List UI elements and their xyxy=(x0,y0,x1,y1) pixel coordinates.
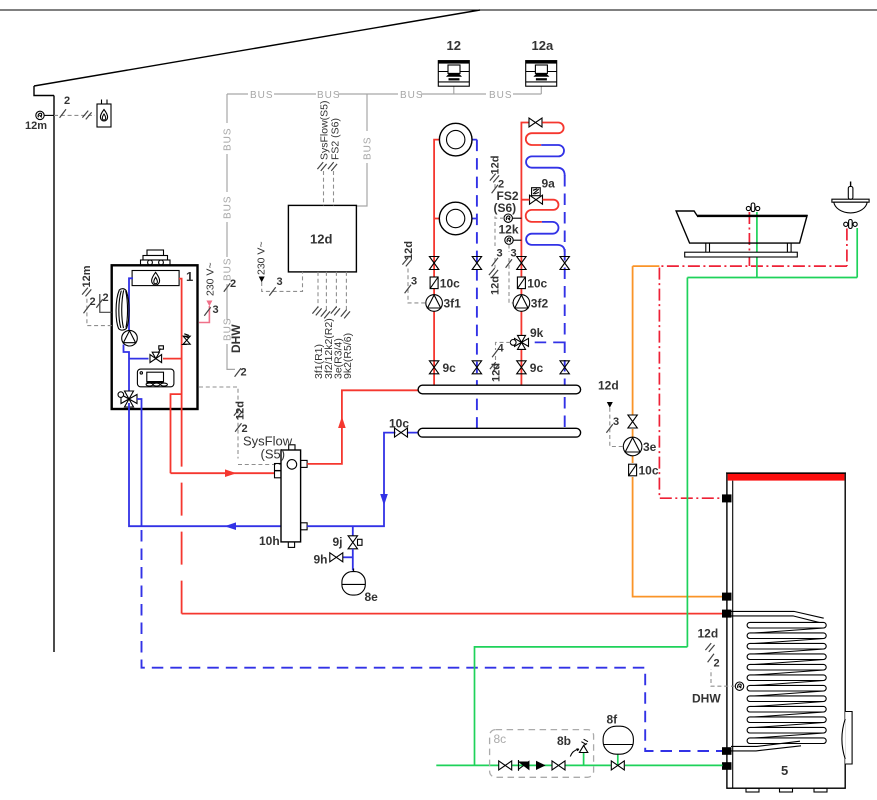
red arrow right xyxy=(225,469,237,477)
valve 10c on blue xyxy=(395,428,408,437)
BUS branch label 2 xyxy=(224,283,230,291)
blue dashed riser circuit 2 xyxy=(564,175,566,428)
radiator 1 xyxy=(439,123,472,156)
svg-text:2: 2 xyxy=(90,296,96,308)
svg-text:3: 3 xyxy=(277,276,283,288)
blue from valve right down xyxy=(137,399,142,526)
upper floor loop blue xyxy=(526,145,565,176)
svg-text:10c: 10c xyxy=(389,417,409,431)
valve 9c blue c1 xyxy=(472,361,481,374)
pump 3e xyxy=(623,437,642,456)
svg-text:3: 3 xyxy=(411,276,417,288)
valve 9c red c2 xyxy=(517,361,526,374)
3-way valve with motor xyxy=(150,346,163,363)
flue assembly xyxy=(141,250,171,265)
svg-text:9c: 9c xyxy=(530,361,544,375)
upper floor loop red xyxy=(526,123,564,146)
4-way diverter valve xyxy=(118,391,137,407)
bypass valve xyxy=(182,334,191,345)
svg-text:12a: 12a xyxy=(532,38,554,53)
svg-text:10h: 10h xyxy=(259,534,280,548)
svg-text:8f: 8f xyxy=(607,713,619,727)
shutoff valve 2 xyxy=(552,761,565,770)
orange link corner xyxy=(633,265,660,267)
return manifold bar xyxy=(418,428,580,437)
svg-text:12d: 12d xyxy=(490,156,502,175)
valve red c2 xyxy=(517,257,526,270)
svg-text:BUS: BUS xyxy=(223,127,234,151)
svg-text:10c: 10c xyxy=(440,276,460,290)
svg-text:BUS: BUS xyxy=(250,90,274,101)
svg-text:8e: 8e xyxy=(365,590,379,604)
heat exchanger xyxy=(116,289,129,330)
left wall cable 2 (solid) xyxy=(96,294,111,312)
mixing valve 9k xyxy=(510,335,564,349)
check valve xyxy=(519,760,529,771)
red link to radiator 2 xyxy=(434,218,440,220)
svg-text:3: 3 xyxy=(511,248,517,260)
svg-text:12d: 12d xyxy=(403,241,415,260)
pump 3f1 xyxy=(426,295,443,312)
svg-text:12: 12 xyxy=(447,38,461,53)
red feed to DHW tank xyxy=(182,613,723,615)
svg-text:3: 3 xyxy=(613,416,619,428)
orange circulation pipe xyxy=(633,266,723,596)
svg-text:(S6): (S6) xyxy=(494,201,517,215)
svg-text:2: 2 xyxy=(103,292,109,304)
boiler pump xyxy=(122,330,138,346)
sensor 12m circle xyxy=(36,111,54,119)
svg-text:BUS: BUS xyxy=(489,90,513,101)
svg-text:3f2: 3f2 xyxy=(531,297,549,311)
svg-text:9h: 9h xyxy=(314,553,328,567)
cable drops into 12d top xyxy=(317,162,337,205)
blue out of boiler to header return xyxy=(129,403,281,526)
svg-text:9k2(R5/6): 9k2(R5/6) xyxy=(342,333,354,379)
sensor FS2(S6) xyxy=(504,214,521,222)
expansion vessel 8f xyxy=(603,726,633,765)
svg-text:8b: 8b xyxy=(557,734,571,748)
8c group box xyxy=(490,730,594,778)
cable to pump 3e xyxy=(606,402,622,447)
basin mixer tap xyxy=(844,220,858,229)
blue dashed riser circuit 1 xyxy=(476,140,478,429)
svg-text:8c: 8c xyxy=(494,732,507,746)
svg-text:BUS: BUS xyxy=(223,195,234,219)
control 12 xyxy=(438,61,469,94)
lower floor loop red xyxy=(521,200,558,222)
header sensor S5 xyxy=(287,460,297,470)
shutoff valve 1 xyxy=(499,761,512,770)
svg-text:9k: 9k xyxy=(530,326,544,340)
svg-text:12d: 12d xyxy=(698,627,719,641)
valve blue c2 xyxy=(560,257,569,270)
svg-text:12m: 12m xyxy=(81,265,93,287)
hot riser to basin tap xyxy=(846,229,848,267)
svg-text:FS2 (S6): FS2 (S6) xyxy=(330,118,342,160)
green riser from taps xyxy=(475,647,688,766)
svg-text:DHW: DHW xyxy=(229,324,243,353)
DHW sensor on tank xyxy=(705,643,743,690)
svg-text:BUS: BUS xyxy=(363,136,374,160)
tank feet xyxy=(746,788,827,792)
coil outlet pipe xyxy=(731,741,801,751)
valve red c1 xyxy=(429,257,438,270)
expansion vessel 8e xyxy=(342,569,365,596)
svg-text:9j: 9j xyxy=(333,535,343,549)
control cable to 3f1 xyxy=(402,258,425,303)
cold main green xyxy=(436,764,722,766)
radiator 2 xyxy=(439,202,472,235)
red flow boiler to header xyxy=(171,472,275,474)
burner box xyxy=(132,271,179,286)
svg-text:1: 1 xyxy=(186,269,193,284)
red riser circuit 1 xyxy=(434,140,440,386)
cable to FS2 xyxy=(490,174,504,219)
svg-text:3f1: 3f1 xyxy=(444,297,462,311)
svg-text:2: 2 xyxy=(241,367,247,379)
svg-text:10c: 10c xyxy=(639,464,659,478)
eave step xyxy=(34,86,54,96)
hot riser to tub tap xyxy=(748,212,750,266)
svg-text:9a: 9a xyxy=(542,177,556,191)
svg-text:3e: 3e xyxy=(643,440,657,454)
svg-text:5: 5 xyxy=(781,763,788,778)
blue arrow left xyxy=(225,522,237,530)
pump 3f2 xyxy=(513,295,530,312)
blue-red mixing row xyxy=(129,358,149,360)
blue links radiators xyxy=(472,140,477,219)
cold riser to tub tap xyxy=(756,212,758,278)
boiler cabinet xyxy=(112,265,198,409)
relay cable drops from 12d bottom xyxy=(312,272,350,319)
valve 9c blue c2 xyxy=(560,361,569,374)
coil rungs xyxy=(747,622,826,743)
lower floor loop blue xyxy=(526,222,565,252)
svg-text:10c: 10c xyxy=(527,276,547,290)
blue from manifold to header xyxy=(307,433,419,527)
sensor 12k xyxy=(505,236,522,244)
red flow inside boiler xyxy=(179,279,182,466)
flow direction triangle xyxy=(536,761,546,770)
tank shell xyxy=(727,473,845,788)
valve 9a with motor xyxy=(530,188,543,205)
safety valve 8b xyxy=(570,739,588,765)
drain valve 9h xyxy=(330,553,353,562)
box 12d xyxy=(288,205,356,272)
valve 9c red c1 xyxy=(429,361,438,374)
svg-text:12d: 12d xyxy=(598,379,619,393)
BUS vertical right drop to 12d xyxy=(356,94,367,206)
left wall cable 12m (dashed) xyxy=(82,288,112,326)
cable to 9k xyxy=(490,342,510,371)
svg-text:12d: 12d xyxy=(310,232,332,247)
svg-text:(S5): (S5) xyxy=(261,447,286,462)
hot water dash-dot main xyxy=(659,266,847,498)
svg-text:2: 2 xyxy=(498,179,504,191)
svg-text:3: 3 xyxy=(213,304,219,316)
coil inlet pipe xyxy=(731,611,824,623)
svg-text:3: 3 xyxy=(497,248,503,260)
DHW cable from boiler xyxy=(199,368,287,464)
svg-text:2: 2 xyxy=(714,658,720,670)
valve on circulation xyxy=(628,415,637,428)
red dashed boiler to tank coil xyxy=(181,466,183,614)
cold water green main xyxy=(687,228,857,647)
svg-text:2: 2 xyxy=(64,95,70,107)
cable to receiver xyxy=(54,109,95,119)
flow setter 10c circulation xyxy=(629,464,637,476)
top shutoff valve xyxy=(529,118,542,127)
svg-text:12d: 12d xyxy=(491,363,503,382)
red out of header to manifold xyxy=(307,390,419,464)
header body xyxy=(281,450,301,542)
header stubs xyxy=(275,445,308,548)
svg-text:4: 4 xyxy=(498,343,505,355)
svg-text:2: 2 xyxy=(230,278,236,290)
svg-text:DHW: DHW xyxy=(692,692,721,706)
control panel xyxy=(137,369,174,387)
svg-text:12k: 12k xyxy=(499,223,519,237)
valve blue c1 xyxy=(472,257,481,270)
coil back diagonals xyxy=(749,628,824,738)
BUS horizontal line xyxy=(227,93,541,95)
svg-text:BUS: BUS xyxy=(317,90,341,101)
svg-text:230 V~: 230 V~ xyxy=(256,241,268,275)
red branch to header inside boiler xyxy=(171,394,182,473)
blue arrow down xyxy=(380,494,388,506)
flow setter 10c c2 xyxy=(517,277,525,289)
control 12a xyxy=(526,61,557,94)
blue dashed return from tank xyxy=(142,530,723,751)
red arrow up xyxy=(338,417,346,429)
tank red top cap xyxy=(726,473,846,481)
tank inner wall xyxy=(732,481,734,789)
red riser circuit 2 xyxy=(521,123,529,386)
tank connectors xyxy=(722,494,732,769)
top border line xyxy=(0,9,877,11)
wall xyxy=(53,96,55,653)
roof slant xyxy=(34,10,480,86)
svg-text:230 V~: 230 V~ xyxy=(205,262,217,296)
cable from FS2 down xyxy=(489,222,498,277)
svg-text:12m: 12m xyxy=(25,120,47,132)
expansion line 9j valve xyxy=(348,526,362,570)
svg-text:12d: 12d xyxy=(490,276,502,295)
svg-text:12d: 12d xyxy=(235,401,247,420)
flow manifold bar xyxy=(418,385,580,394)
receiver icon with flame xyxy=(97,100,111,128)
flow setter 10c c1 xyxy=(430,277,438,289)
tub mixer tap xyxy=(746,203,760,212)
cable from 12k to pump xyxy=(506,245,513,303)
blue return inside boiler xyxy=(124,278,134,395)
handhole cover xyxy=(842,712,852,765)
shutoff valve to tank xyxy=(611,761,624,770)
svg-text:9c: 9c xyxy=(443,361,457,375)
svg-text:BUS: BUS xyxy=(400,90,424,101)
BUS vertical left xyxy=(227,94,235,369)
